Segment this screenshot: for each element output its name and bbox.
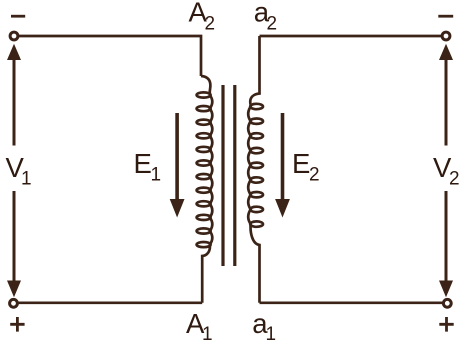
polarity plus bottom-right: [439, 317, 453, 332]
label a1: [252, 308, 276, 345]
svg-text:2: 2: [449, 169, 460, 190]
arrow V1 (left, double-headed): [7, 44, 21, 297]
label V1: [6, 152, 32, 190]
arrow V1 down head: [7, 281, 21, 298]
secondary loop turns: [250, 104, 263, 227]
polarity minus top-right: [438, 15, 453, 18]
arrow V1 lower shaft: [13, 191, 16, 281]
core limb right: [233, 85, 236, 266]
arrow V2 down head: [439, 281, 453, 298]
wire top-left horizontal: [19, 36, 202, 76]
label a2: [254, 0, 277, 35]
polarity minus top-left: [11, 15, 25, 18]
label A1: [186, 308, 213, 345]
svg-text:1: 1: [151, 165, 162, 186]
label V2: [433, 152, 460, 190]
terminal bottom-left: [10, 299, 18, 307]
primary loop turns: [197, 92, 211, 247]
svg-text:E: E: [134, 148, 152, 179]
svg-text:1: 1: [202, 324, 213, 345]
polarity plus bottom-left: [10, 317, 24, 332]
svg-text:1: 1: [266, 324, 277, 345]
arrow V2 upper shaft: [445, 58, 448, 146]
wire bottom-right horizontal: [260, 301, 444, 304]
arrow V1 up head: [7, 44, 21, 60]
svg-text:2: 2: [267, 14, 278, 35]
wire bottom-left horizontal: [18, 301, 202, 304]
terminal bottom-right: [443, 299, 451, 307]
terminal top-right: [442, 32, 450, 40]
svg-text:E: E: [292, 148, 310, 179]
arrow V1 upper shaft: [13, 58, 16, 146]
arrow E2: [275, 113, 290, 218]
label E2: [292, 148, 320, 186]
arrow V2 lower shaft: [445, 191, 448, 281]
arrow V2 up head: [439, 44, 453, 60]
winding P1 primary coil: [201, 76, 212, 303]
svg-text:1: 1: [21, 169, 32, 190]
arrow E1: [170, 113, 185, 218]
core limb left: [221, 85, 224, 266]
svg-text:2: 2: [309, 165, 320, 186]
label A2: [189, 0, 216, 35]
winding S1 secondary coil: [248, 36, 259, 303]
label E1: [134, 148, 162, 186]
svg-text:2: 2: [205, 14, 216, 35]
wire top-right horizontal: [260, 35, 442, 38]
terminal top-left: [10, 32, 18, 40]
arrow V2 (right, double-headed): [439, 44, 453, 297]
